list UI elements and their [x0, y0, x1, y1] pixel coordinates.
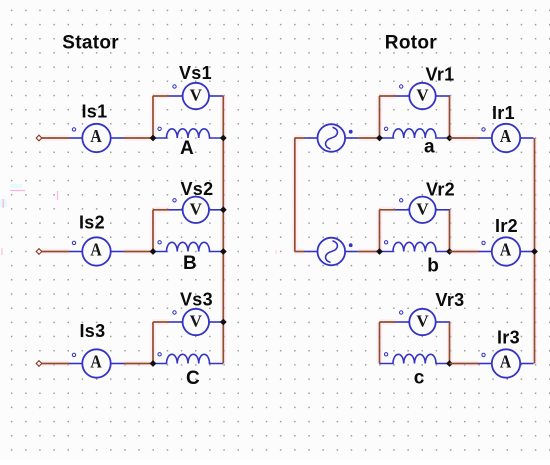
- wire: [124, 363, 153, 365]
- svg-text:Is3: Is3: [80, 321, 106, 341]
- junction: [150, 360, 157, 367]
- svg-text:c: c: [414, 368, 425, 389]
- wire: [152, 322, 154, 364]
- wire: [358, 137, 379, 139]
- terminal input 3: [36, 361, 42, 367]
- svg-text:V: V: [190, 199, 203, 218]
- wire: [124, 251, 153, 253]
- svg-text:Rotor: Rotor: [385, 33, 437, 54]
- svg-text:A: A: [90, 239, 102, 259]
- svg-text:Ir1: Ir1: [492, 103, 515, 123]
- voltmeter Vr1: [396, 83, 451, 109]
- svg-text:Stator: Stator: [62, 33, 119, 54]
- wire: [449, 322, 451, 364]
- inductor C: [153, 353, 223, 364]
- voltmeter Vs1: [169, 83, 224, 109]
- ammeter Ir2: [479, 237, 534, 265]
- svg-text:Vs1: Vs1: [179, 63, 212, 83]
- terminal input 2: [36, 249, 42, 255]
- svg-text:A: A: [500, 351, 512, 371]
- wire: [124, 137, 153, 139]
- wire: [380, 321, 396, 323]
- wire: [295, 251, 305, 253]
- wire: [379, 322, 381, 364]
- junction: [220, 135, 227, 142]
- wire: [450, 251, 479, 253]
- ammeter Is1: [69, 124, 124, 152]
- wire rotor source link: [294, 138, 296, 252]
- wire: [380, 95, 396, 97]
- svg-text:V: V: [416, 86, 429, 105]
- inductor b: [380, 241, 450, 252]
- svg-text:A: A: [500, 126, 512, 146]
- ammeter Is3: [69, 349, 124, 377]
- junction: [531, 248, 538, 255]
- voltmeter Vr3: [396, 309, 451, 335]
- svg-text:Vs2: Vs2: [181, 179, 214, 199]
- svg-text:V: V: [416, 312, 429, 331]
- junction: [150, 248, 157, 255]
- wire: [42, 137, 70, 139]
- svg-text:Ir2: Ir2: [495, 216, 518, 236]
- inductor B: [153, 241, 223, 252]
- svg-text:Is2: Is2: [79, 212, 105, 232]
- svg-text:Vr3: Vr3: [436, 290, 465, 310]
- ammeter Ir3: [479, 349, 534, 377]
- inductor a: [380, 127, 450, 138]
- voltmeter Vr2: [396, 197, 451, 223]
- junction: [446, 135, 453, 142]
- svg-text:V: V: [190, 86, 203, 105]
- wire rotor bus: [534, 138, 536, 364]
- wire: [152, 96, 154, 138]
- svg-text:Vs3: Vs3: [180, 289, 213, 309]
- junction: [446, 248, 453, 255]
- wire: [295, 137, 305, 139]
- svg-text:Vr2: Vr2: [426, 179, 455, 199]
- wire: [358, 251, 379, 253]
- svg-text:B: B: [183, 253, 197, 274]
- junction: [446, 360, 453, 367]
- svg-text:Vr1: Vr1: [426, 64, 455, 84]
- wire: [379, 96, 381, 138]
- inductor A: [153, 127, 223, 138]
- wire stator bus: [222, 96, 224, 364]
- wire: [380, 209, 396, 211]
- ac source 2: [304, 238, 358, 266]
- svg-text:V: V: [416, 199, 429, 218]
- junction: [376, 248, 383, 255]
- junction: [220, 206, 227, 213]
- wire: [449, 210, 451, 252]
- wire: [449, 96, 451, 138]
- wire: [153, 321, 169, 323]
- svg-text:Ir3: Ir3: [497, 327, 520, 347]
- svg-text:A: A: [500, 239, 512, 259]
- wire: [153, 209, 169, 211]
- terminal input 1: [36, 135, 42, 141]
- wire: [42, 251, 70, 253]
- wire: [152, 210, 154, 252]
- wire: [450, 363, 479, 365]
- svg-text:V: V: [190, 312, 203, 331]
- junction: [150, 135, 157, 142]
- svg-text:A: A: [90, 351, 102, 371]
- svg-text:A: A: [180, 138, 194, 159]
- junction: [376, 135, 383, 142]
- voltmeter Vs3: [169, 309, 224, 335]
- ammeter Ir1: [479, 124, 534, 152]
- svg-text:C: C: [186, 368, 200, 389]
- ammeter Is2: [69, 237, 124, 265]
- wire: [153, 95, 169, 97]
- svg-text:a: a: [424, 136, 435, 157]
- svg-text:b: b: [427, 255, 439, 276]
- voltmeter Vs2: [169, 197, 224, 223]
- inductor c: [380, 353, 450, 364]
- wire: [379, 210, 381, 252]
- ac source 1: [304, 124, 358, 152]
- junction: [220, 319, 227, 326]
- wire: [42, 363, 70, 365]
- svg-text:Is1: Is1: [82, 102, 108, 122]
- svg-text:A: A: [90, 126, 102, 146]
- wire: [450, 137, 479, 139]
- junction: [220, 248, 227, 255]
